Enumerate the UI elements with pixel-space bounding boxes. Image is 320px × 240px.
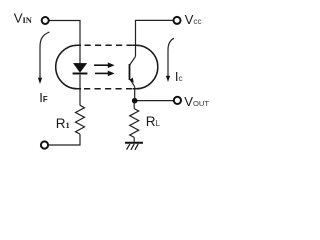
wire R1 bottom to GND terminal <box>49 134 80 145</box>
svg-text:R1: R1 <box>56 116 70 131</box>
svg-text:RL: RL <box>146 114 161 129</box>
wire node A to RL <box>133 101 135 109</box>
node A junction dot <box>132 98 138 104</box>
wire VCC to collector <box>136 20 174 56</box>
optocoupler body left cap <box>56 45 81 89</box>
svg-text:Ic: Ic <box>175 69 183 84</box>
phototransistor Q1 emitter lead <box>130 79 135 87</box>
resistor R1 <box>76 105 85 134</box>
current arrow IF <box>38 32 50 84</box>
wire RL bottom to ground <box>133 137 135 141</box>
svg-text:VOUT: VOUT <box>184 94 209 109</box>
svg-text:Vcc: Vcc <box>185 12 202 27</box>
svg-text:VIN: VIN <box>14 11 33 26</box>
terminal VIN <box>42 17 49 24</box>
current arrow IC <box>166 38 174 82</box>
optocoupler body bottom dashed edge <box>84 88 133 90</box>
light arrow upper <box>94 62 115 68</box>
resistor RL <box>130 109 139 138</box>
wire VIN to LED anode <box>49 21 80 64</box>
wire emitter to node A <box>134 87 136 101</box>
wire LED cathode to R1 <box>79 75 81 106</box>
optocoupler body right cap <box>133 45 158 89</box>
optocoupler body top dashed edge <box>85 44 133 46</box>
phototransistor Q1 collector lead <box>130 56 136 65</box>
LED D1 cathode bar <box>73 73 88 75</box>
terminal VCC <box>174 17 181 24</box>
phototransistor Q1 emitter arrow <box>129 78 133 83</box>
terminal GND left <box>41 141 48 148</box>
svg-text:IF: IF <box>39 90 48 105</box>
phototransistor Q1 base bar <box>129 64 131 80</box>
light arrow lower <box>95 71 115 77</box>
terminal VOUT <box>174 97 181 104</box>
LED D1 triangle <box>74 63 87 72</box>
wire node A to VOUT <box>135 100 174 102</box>
ground <box>125 143 143 150</box>
